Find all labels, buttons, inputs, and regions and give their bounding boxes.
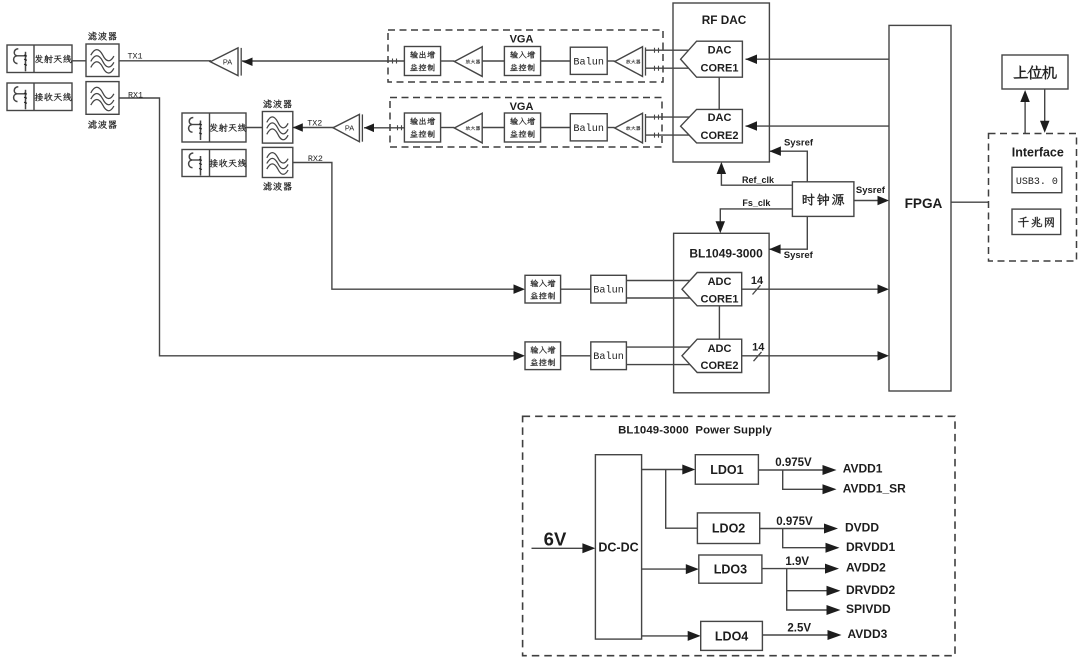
- svg-text:LDO3: LDO3: [714, 563, 747, 577]
- svg-text:DRVDD1: DRVDD1: [846, 540, 895, 554]
- svg-text:PA: PA: [345, 124, 354, 133]
- svg-text:Fs_clk: Fs_clk: [742, 198, 771, 208]
- svg-text:RF DAC: RF DAC: [702, 13, 747, 27]
- block balunA2: [591, 342, 627, 370]
- wire Fs_clk: [716, 209, 793, 233]
- net label Sysref-adc: [784, 250, 814, 261]
- svg-text:AVDD3: AVDD3: [848, 627, 888, 641]
- block host PC 上位机: [1002, 55, 1068, 89]
- net label TX1: [127, 52, 142, 62]
- wire antenna3 to filter3: [246, 127, 262, 129]
- wire DAC core link: [718, 77, 720, 109]
- wire diff pair DAC1-: [645, 67, 690, 69]
- net label DRVDD2: [846, 583, 895, 597]
- svg-text:DAC: DAC: [708, 112, 732, 124]
- svg-text:Balun: Balun: [573, 56, 604, 68]
- wire branch AVDD1_SR: [783, 470, 837, 494]
- svg-text:LDO2: LDO2: [712, 522, 745, 536]
- label F4 滤波器: [263, 182, 291, 191]
- wire branch DRVDD2: [787, 569, 841, 596]
- svg-text:DAC: DAC: [708, 45, 732, 57]
- capacitor coupling C-TX1: [393, 59, 397, 64]
- svg-text:0.975V: 0.975V: [775, 457, 812, 469]
- net label 0.975V-2: [776, 516, 813, 528]
- block balunA1: [591, 275, 627, 303]
- svg-text:6V: 6V: [544, 529, 567, 550]
- label BL1049-3000: [689, 246, 763, 260]
- svg-text:LDO4: LDO4: [715, 629, 748, 643]
- wire arrow ADC input A1: [514, 284, 526, 294]
- svg-text:14: 14: [751, 275, 764, 287]
- wire ADC CORE1 to FPGA bus: [742, 284, 889, 294]
- capacitor coupling DAC1+: [655, 48, 659, 53]
- antenna block TX2 发射天线: [182, 113, 246, 142]
- capacitor coupling C-TX2: [398, 125, 402, 130]
- wire host to interface arrow down: [1040, 89, 1050, 133]
- wire LDO3 output: [762, 564, 839, 574]
- svg-text:VGA: VGA: [510, 101, 534, 113]
- svg-text:BL1049-3000 Power Supply: BL1049-3000 Power Supply: [618, 425, 772, 437]
- svg-text:Sysref: Sysref: [784, 138, 814, 149]
- antenna block RX1 接收天线: [7, 83, 72, 111]
- svg-text:14: 14: [752, 342, 765, 354]
- wire Sysref to ADC: [769, 216, 807, 254]
- capacitor coupling DAC2+: [655, 115, 659, 120]
- wire amp3 to ingain2: [482, 127, 504, 129]
- block ingainA2 输入增益控制: [525, 342, 561, 370]
- wire DC-DC to LDO3: [642, 564, 699, 574]
- wire RX2 net: [293, 163, 516, 290]
- svg-text:Sysref: Sysref: [856, 185, 886, 196]
- chip RF DAC box: [673, 3, 769, 162]
- label Interface: [1012, 145, 1064, 159]
- svg-text:0.975V: 0.975V: [776, 516, 813, 528]
- svg-text:AVDD2: AVDD2: [846, 561, 886, 575]
- wire TX1 filter1 to PA1: [119, 60, 211, 62]
- net label Sysref-dac: [784, 138, 814, 149]
- capacitor coupling DAC2-: [655, 133, 659, 138]
- filter F4 滤波器: [262, 147, 292, 177]
- svg-text:CORE1: CORE1: [701, 63, 739, 75]
- svg-text:CORE1: CORE1: [701, 294, 739, 306]
- block DAC CORE2: [681, 109, 743, 142]
- net label AVDD1: [843, 462, 883, 476]
- svg-text:VGA: VGA: [510, 34, 534, 46]
- bus width label 14-2: [752, 342, 765, 354]
- net label 1.9V: [785, 556, 809, 568]
- wire ingain1 to balun1: [541, 60, 571, 62]
- net label Ref_clk: [742, 175, 775, 185]
- net label TX2: [307, 119, 322, 129]
- svg-text:BL1049-3000: BL1049-3000: [689, 246, 763, 260]
- label VGA1: [510, 34, 534, 46]
- svg-text:FPGA: FPGA: [905, 196, 943, 211]
- antenna block RX2 接收天线: [182, 150, 246, 177]
- regulator LDO4: [701, 621, 763, 650]
- svg-text:Balun: Balun: [593, 351, 624, 363]
- svg-text:Sysref: Sysref: [784, 250, 814, 261]
- label 6V: [544, 529, 567, 550]
- net label 2.5V: [787, 622, 811, 634]
- svg-text:Balun: Balun: [593, 285, 624, 297]
- wire LDO1 output: [758, 465, 836, 475]
- block clock source 时钟源: [792, 182, 854, 217]
- filter F1 滤波器: [86, 44, 119, 77]
- wire Sysref to FPGA: [854, 196, 889, 205]
- label BL1049-3000 Power Supply: [618, 425, 772, 437]
- wire ADC CORE2 to FPGA bus: [742, 351, 889, 361]
- label F3 滤波器: [263, 99, 291, 108]
- wire LDO4 output: [762, 630, 841, 640]
- amplifier PA2: [333, 114, 374, 141]
- svg-text:DC-DC: DC-DC: [598, 541, 638, 555]
- svg-text:CORE2: CORE2: [701, 130, 739, 142]
- bus width label 14-1: [751, 275, 764, 287]
- antenna block TX1 发射天线: [7, 45, 72, 73]
- wire TX2 filter3 to PA2: [293, 127, 334, 129]
- svg-text:TX1: TX1: [127, 52, 142, 62]
- net label DVDD: [845, 520, 879, 534]
- wire ingainA1 to balunA1: [561, 288, 591, 290]
- wire FPGA to Interface: [951, 201, 989, 203]
- wire arrow into F3: [293, 123, 303, 132]
- wire branch SPIVDD: [787, 591, 841, 615]
- svg-text:ADC: ADC: [708, 343, 732, 355]
- bus slash 14-2: [754, 352, 762, 361]
- wire FPGA to DAC CORE2: [746, 121, 890, 131]
- svg-text:1.9V: 1.9V: [785, 556, 809, 568]
- chip FPGA: [889, 25, 951, 391]
- capacitor coupling DAC1-: [655, 66, 659, 71]
- svg-text:RX1: RX1: [128, 90, 143, 100]
- amplifier PA1: [210, 48, 252, 76]
- svg-text:Balun: Balun: [573, 123, 604, 135]
- block ingainA1 输入增益控制: [525, 275, 561, 303]
- svg-text:USB3. 0: USB3. 0: [1016, 177, 1058, 188]
- wire diff pair ADC1-: [626, 297, 690, 299]
- svg-text:AVDD1: AVDD1: [843, 462, 883, 476]
- net label RX1: [128, 90, 143, 100]
- wire Sysref to RF DAC: [769, 146, 807, 181]
- wire branch DRVDD1: [783, 529, 840, 553]
- regulator LDO1: [695, 455, 758, 485]
- amplifier A4 放大器: [615, 113, 646, 143]
- wire diff pair DAC1+: [645, 49, 690, 51]
- wire ADC core link: [718, 306, 720, 339]
- net label Sysref-fpga: [856, 185, 886, 196]
- svg-text:LDO1: LDO1: [710, 463, 743, 477]
- label RF DAC: [702, 13, 747, 27]
- amplifier A2 放大器: [615, 47, 646, 77]
- wire DC-DC to LDO4: [642, 631, 701, 641]
- chip BL1049-3000 box: [674, 233, 770, 392]
- block balun1: [570, 47, 607, 74]
- svg-text:TX2: TX2: [307, 119, 322, 129]
- wire FPGA to DAC CORE1: [746, 55, 890, 65]
- module Interface dashed box: [989, 134, 1077, 262]
- block gigabit ethernet 千兆网: [1012, 209, 1061, 234]
- net label AVDD3: [848, 627, 888, 641]
- block ingain2 输入增益控制: [504, 113, 540, 142]
- wire outgain1 to amp1: [441, 60, 455, 62]
- wire branch to LDO2: [666, 470, 698, 529]
- wire Ref_clk: [717, 162, 793, 185]
- wire DC-DC to LDO1: [642, 465, 696, 475]
- svg-text:CORE2: CORE2: [701, 360, 739, 372]
- wire PA1 input from VGA1: [242, 60, 404, 62]
- wire PA2 input from VGA2: [364, 127, 406, 129]
- block ADC CORE2: [682, 339, 742, 372]
- net label Fs_clk: [742, 198, 771, 208]
- net label DRVDD1: [846, 540, 895, 554]
- wire antenna1 to filter1: [72, 60, 86, 62]
- svg-text:Ref_clk: Ref_clk: [742, 175, 775, 185]
- block balun2: [570, 114, 607, 141]
- block ADC CORE1: [682, 273, 742, 306]
- wire diff pair DAC2+: [645, 116, 690, 118]
- wire outgain2 to amp3: [441, 127, 455, 129]
- amplifier A3 放大器: [454, 113, 482, 143]
- block outgain2 输出增益控制: [404, 113, 440, 142]
- filter F2 滤波器: [86, 82, 119, 115]
- block USB3.0: [1012, 167, 1062, 192]
- regulator LDO2: [697, 513, 759, 544]
- svg-text:RX2: RX2: [308, 154, 323, 164]
- module power supply dashed box: [523, 416, 955, 655]
- svg-text:2.5V: 2.5V: [787, 622, 811, 634]
- wire LDO2 output: [760, 524, 838, 534]
- wire diff pair ADC2-: [626, 364, 690, 366]
- wire interface to host arrow up: [1020, 90, 1030, 134]
- wire balun1 to amp2: [607, 60, 615, 62]
- svg-text:DVDD: DVDD: [845, 520, 879, 534]
- svg-text:ADC: ADC: [708, 276, 732, 288]
- bus slash 14-1: [753, 285, 761, 294]
- net label 0.975V-1: [775, 457, 812, 469]
- net label AVDD1_SR: [843, 481, 906, 495]
- module VGA1 dashed box: [388, 30, 663, 82]
- wire diff pair ADC1+: [626, 280, 690, 282]
- svg-text:Interface: Interface: [1012, 145, 1064, 159]
- wire diff pair DAC2-: [645, 134, 690, 136]
- amplifier A1 放大器: [454, 47, 482, 77]
- wire amp1 to ingain1: [482, 60, 504, 62]
- svg-text:AVDD1_SR: AVDD1_SR: [843, 481, 906, 495]
- wire RX1 net: [119, 98, 516, 356]
- block DAC CORE1: [681, 41, 743, 77]
- svg-text:SPIVDD: SPIVDD: [846, 602, 891, 616]
- filter F3 滤波器: [262, 112, 292, 144]
- label F1 滤波器: [88, 32, 116, 41]
- wire balun2 to amp4: [607, 127, 615, 129]
- net label SPIVDD: [846, 602, 891, 616]
- wire diff pair ADC2+: [626, 346, 690, 348]
- svg-text:DRVDD2: DRVDD2: [846, 583, 895, 597]
- block DC-DC converter: [595, 455, 641, 639]
- block outgain1 输出增益控制: [404, 47, 440, 76]
- wire 6V input: [532, 543, 596, 553]
- net label AVDD2: [846, 561, 886, 575]
- regulator LDO3: [699, 555, 762, 583]
- label F2 滤波器: [88, 120, 116, 129]
- svg-text:PA: PA: [223, 58, 232, 67]
- wire ingainA2 to balunA2: [561, 355, 591, 357]
- wire arrow ADC input A2: [514, 351, 526, 361]
- wire ingain2 to balun2: [541, 127, 571, 129]
- block ingain1 输入增益控制: [504, 47, 540, 76]
- net label RX2: [308, 154, 323, 164]
- label VGA2: [510, 101, 534, 113]
- module VGA2 dashed box: [390, 98, 662, 148]
